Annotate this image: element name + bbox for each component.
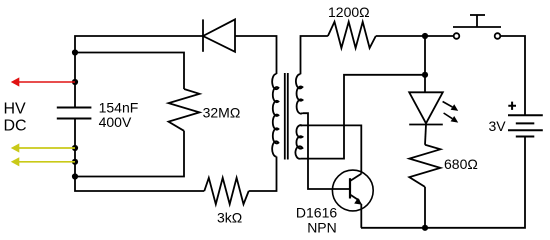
wire: battery+ node to drive winding bottom — [301, 75, 426, 159]
LED D2 triangle — [409, 92, 443, 123]
transistor Q1 collector diagonal — [350, 174, 361, 181]
svg-text:1200Ω: 1200Ω — [328, 4, 370, 20]
HV output red arrow — [11, 77, 75, 86]
switch S1 right contact — [495, 33, 501, 39]
battery BT1 plate long 2 — [508, 129, 543, 131]
battery BT1 plate short 2 — [516, 136, 535, 138]
resistor R 3k zigzag — [204, 178, 248, 204]
node dot: yellow output 2 at left rail — [72, 159, 78, 165]
svg-text:400V: 400V — [99, 114, 132, 130]
wire: left rail upper + top wire to diode — [75, 36, 203, 108]
svg-text:680Ω: 680Ω — [444, 156, 478, 172]
node dot: switch node — [422, 33, 428, 39]
transformer T1 left winding — [272, 74, 278, 157]
wire: feedback winding bottom to base — [303, 113, 351, 189]
svg-text:HV: HV — [4, 101, 27, 118]
wire: 680 resistor to bottom rail — [424, 187, 426, 228]
wire: left rail lower + bottom wire to 3k — [75, 119, 204, 192]
svg-text:32MΩ: 32MΩ — [203, 104, 241, 120]
node dot: LED branch node — [422, 72, 428, 78]
switch S1 actuator bar — [453, 26, 501, 28]
capacitor C1 top plate — [57, 107, 92, 109]
svg-text:3V: 3V — [489, 118, 507, 134]
output yellow arrow 2 — [11, 157, 75, 166]
svg-text:D1616: D1616 — [296, 205, 337, 221]
output yellow arrow 1 — [11, 143, 75, 152]
resistor R 1200 zigzag — [328, 22, 376, 48]
wire: switch node down to LED — [424, 36, 426, 92]
switch S1 cap — [470, 14, 485, 16]
wire: drive winding top to collector — [299, 125, 361, 173]
capacitor C1 bottom plate — [57, 118, 92, 120]
transistor Q1 base bar — [349, 178, 351, 198]
resistor R 32M zigzag — [169, 89, 200, 131]
svg-text:NPN: NPN — [307, 220, 337, 236]
node dot: red output at left rail — [72, 79, 78, 85]
battery BT1 plate short 1 — [516, 122, 535, 124]
wire: diode to transformer primary top — [235, 36, 277, 74]
wire: 3k to transformer primary bottom — [249, 157, 277, 192]
diode D1 triangle — [203, 19, 235, 51]
node dot: bottom rail node — [422, 225, 428, 231]
wire: 1200 resistor to switch — [376, 35, 454, 37]
node dot: 32M bottom at left rail — [72, 173, 78, 179]
LED emission arrow 1 — [443, 102, 459, 111]
svg-text:DC: DC — [4, 118, 27, 135]
svg-text:3kΩ: 3kΩ — [217, 210, 242, 226]
LED D2 cathode bar — [409, 124, 443, 126]
wire: emitter down to bottom rail — [360, 204, 362, 228]
transistor Q1 emitter diagonal — [350, 195, 360, 201]
wire: LED cathode to 680 resistor — [425, 125, 426, 145]
transistor Q1 body circle — [332, 170, 373, 211]
label battery plus — [508, 102, 516, 110]
wire: feedback winding top to 1200 resistor — [301, 36, 328, 74]
transformer T1 core line 1 — [284, 73, 286, 160]
transistor Q1 emitter arrowhead — [354, 198, 362, 205]
switch S1 stem — [476, 15, 478, 27]
transformer T1 core line 2 — [287, 73, 289, 160]
LED emission arrow 2 — [444, 113, 459, 123]
svg-text:154nF: 154nF — [99, 99, 139, 115]
resistor R 680 zigzag — [409, 145, 440, 187]
transformer T1 right top winding (feedback) — [296, 74, 303, 113]
node dot: yellow output 1 at left rail — [72, 145, 78, 151]
node dot: 32M branch at left rail — [72, 49, 78, 55]
wire: 32M branch bottom — [75, 131, 184, 177]
wire: switch to battery top — [501, 36, 525, 115]
wire: battery bottom rail — [361, 137, 525, 228]
transformer T1 right bottom winding (drive) — [295, 125, 302, 159]
switch S1 left contact — [454, 33, 460, 39]
diode D1 cathode bar — [202, 19, 204, 51]
wire: 32M branch top — [75, 53, 184, 90]
battery BT1 plate long 1 — [508, 114, 543, 116]
